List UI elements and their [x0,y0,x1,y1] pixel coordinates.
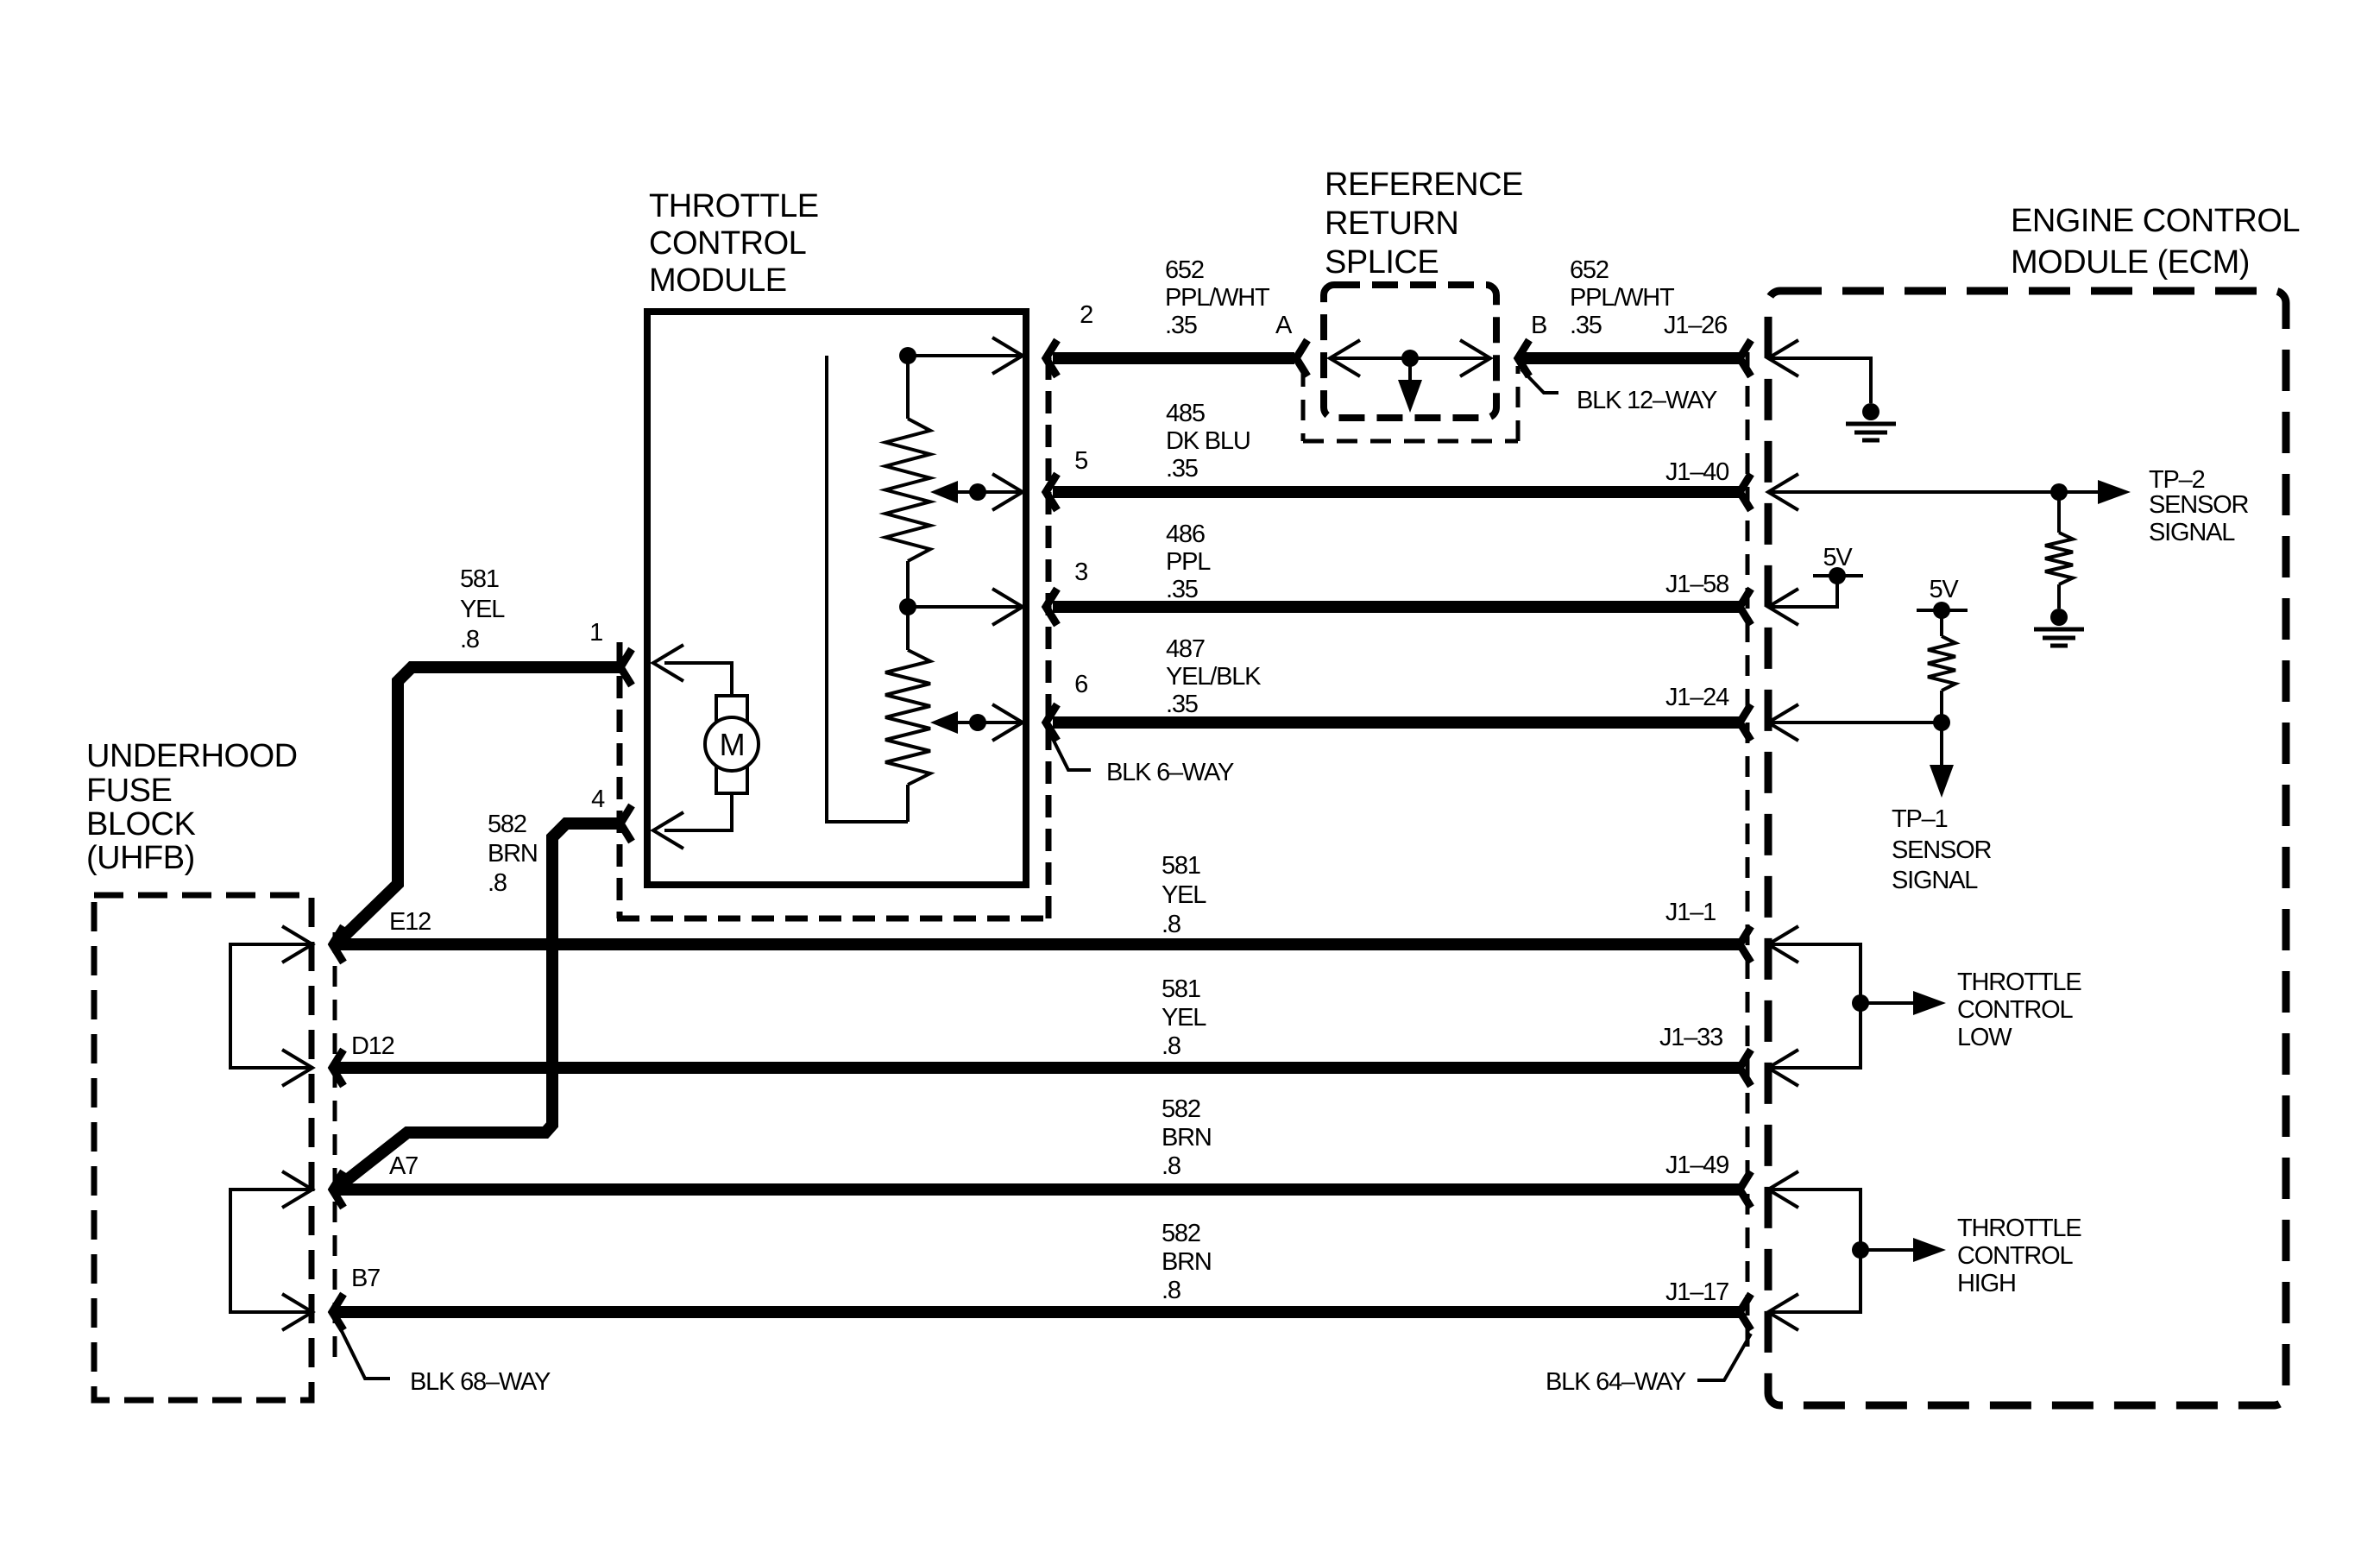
label wire 652 PPL/WHT .35 (left) [1165,256,1270,339]
junction dot TP-1 [1933,714,1950,731]
pin 2 connector chevron [1046,340,1057,376]
label: UNDERHOOD FUSE BLOCK (UHFB) title [86,738,298,876]
svg-text:J1–58: J1–58 [1665,571,1728,598]
svg-text:LOW: LOW [1957,1024,2012,1051]
svg-text:E12: E12 [389,908,431,936]
pin 6 label [1074,671,1087,698]
svg-text:.35: .35 [1166,576,1198,603]
resistor TP-1 pullup [1928,610,1955,723]
label wire 582 BRN .8 (pin 4) [488,811,538,897]
svg-text:.8: .8 [1162,1152,1181,1180]
label THROTTLE CONTROL LOW [1957,969,2081,1051]
splice arrow right [1460,340,1490,376]
junction dot wiper 2 [969,714,986,731]
svg-text:.8: .8 [1162,1277,1181,1304]
svg-text:BRN: BRN [1162,1248,1212,1276]
wire bracket E12-D12 inside UHFB [230,944,311,1068]
arrow into A7 [282,1171,312,1208]
wire bracket A7-B7 inside UHFB [230,1190,311,1312]
pin 1 connector chevron [620,649,632,685]
svg-text:HIGH: HIGH [1957,1270,2016,1297]
svg-text:BLK 68–WAY: BLK 68–WAY [410,1368,551,1396]
svg-text:.8: .8 [1162,1032,1181,1060]
label D12 [351,1032,394,1060]
underhood fuse block UHFB dashed box [94,895,312,1400]
junction dot pin2 tap [899,347,916,364]
svg-text:5V: 5V [1929,576,1959,603]
svg-text:(UHFB): (UHFB) [86,840,195,876]
motor lead to pin 1 [664,663,732,696]
svg-text:CONTROL: CONTROL [1957,996,2073,1024]
label wire 486 PPL .35 [1166,521,1211,603]
arrow TP-2 sensor signal [2098,480,2131,504]
label THROTTLE CONTROL HIGH [1957,1215,2081,1297]
svg-text:UNDERHOOD: UNDERHOOD [86,738,298,774]
svg-text:TP–2: TP–2 [2149,466,2205,494]
motor M symbol [705,696,759,793]
svg-text:.35: .35 [1166,691,1198,718]
pin 3 label [1074,558,1087,586]
arrow to pin 2 [992,338,1023,374]
label wire 581 YEL .8 (row D12) [1162,975,1206,1060]
bracket J1-49 J1-17 [1768,1190,1861,1312]
label J1-40 [1665,458,1728,486]
resistor lower (TP sensor 1) [885,607,930,822]
junction dot pin3 tap [899,598,916,615]
svg-text:582: 582 [1162,1095,1200,1123]
5V source dot 2 [1917,602,1968,619]
label wire 581 YEL .8 (row E12) [1162,852,1206,938]
arrow TP-1 sensor signal down [1930,723,1954,798]
label wire 581 YEL .8 (pin 1) [460,565,505,653]
svg-text:ENGINE CONTROL: ENGINE CONTROL [2011,203,2300,239]
svg-text:582: 582 [1162,1220,1200,1247]
label BLK 12-WAY with leader [1521,369,1717,414]
arrow into E12 [282,926,312,962]
svg-text:J1–26: J1–26 [1664,312,1727,339]
svg-text:YEL: YEL [460,596,505,623]
svg-text:B7: B7 [351,1265,380,1292]
svg-text:BLOCK: BLOCK [86,806,195,842]
connector BLK 6-WAY dashed boundary [617,352,1048,918]
connector chevron E12 [332,926,343,962]
svg-text:SENSOR: SENSOR [1892,836,1992,864]
wire 582 BRN row A7 to ECM J1-49 [337,1183,1739,1196]
svg-text:581: 581 [1162,852,1200,880]
svg-text:.35: .35 [1166,455,1198,483]
connector chevron J1-40 [1740,474,1751,510]
connector chevron J1-17 [1740,1294,1751,1330]
arrow into ECM J1-17 [1768,1294,1798,1330]
wire 581 YEL row E12 to ECM J1-1 [337,938,1739,950]
svg-text:J1–33: J1–33 [1659,1024,1722,1051]
svg-text:YEL/BLK: YEL/BLK [1166,663,1262,691]
svg-text:M: M [720,727,745,762]
svg-text:A7: A7 [389,1152,418,1180]
svg-text:B: B [1531,312,1546,339]
arrow into ECM J1-49 [1768,1171,1798,1208]
svg-text:581: 581 [1162,975,1200,1003]
resistor upper (TP sensor 2) [885,356,930,607]
svg-text:652: 652 [1570,256,1609,284]
ground symbol at J1-26 [1846,403,1896,440]
svg-text:487: 487 [1166,635,1205,663]
label wire 652 PPL/WHT .35 (right) [1570,256,1675,339]
label TP-1 SENSOR SIGNAL [1892,805,1992,894]
arrow motor lead pin 4 [653,812,683,849]
wire 581 YEL from UHFB E12 to TCM pin 1 [336,667,620,944]
arrow to pin 5 [992,474,1023,510]
wire 652 PPL/WHT segment pin2 to splice A [1053,352,1294,364]
pin 4 label [591,786,605,813]
arrow into ECM J1-1 [1768,926,1798,962]
svg-text:DK BLU: DK BLU [1166,427,1250,455]
label wire 582 BRN .8 (row A7) [1162,1095,1212,1180]
label wire 582 BRN .8 (row B7) [1162,1220,1212,1304]
arrow to pin 6 [992,704,1023,741]
svg-text:PPL/WHT: PPL/WHT [1570,284,1675,312]
svg-text:2: 2 [1080,301,1092,329]
arrow into ECM J1-33 [1768,1050,1798,1086]
splice arrow left [1330,340,1360,376]
label J1-1 [1665,899,1716,926]
pot tap to pin 3 [908,605,1023,609]
arrow throttle control low [1861,991,1946,1015]
svg-text:THROTTLE: THROTTLE [649,188,819,224]
splice down arrow [1398,358,1422,413]
junction dot throttle control high [1852,1241,1869,1259]
connector chevron splice A side [1296,340,1307,376]
svg-text:SIGNAL: SIGNAL [1892,867,1978,894]
connector chevron D12 [332,1050,343,1086]
wiper 1 arrow [930,481,1023,503]
svg-text:485: 485 [1166,400,1205,427]
label wire 485 DK BLU .35 [1166,400,1250,483]
splice internal wire [1330,357,1490,360]
svg-text:D12: D12 [351,1032,394,1060]
wire 652 PPL/WHT segment splice B to ECM J1-26 [1522,352,1739,364]
label A [1275,312,1293,339]
pin 3 connector chevron [1046,589,1057,625]
arrow motor lead pin 1 [653,645,683,681]
svg-text:.8: .8 [460,626,479,653]
svg-text:.35: .35 [1570,312,1602,339]
connector BLK 68-WAY dashed line [333,932,337,1364]
pin 6 connector chevron [1046,704,1057,741]
connector chevron J1-49 [1740,1171,1751,1208]
svg-text:PPL/WHT: PPL/WHT [1165,284,1270,312]
svg-text:BLK 6–WAY: BLK 6–WAY [1106,759,1234,786]
wire J1-24 to junction [1768,721,1942,724]
label wire 487 YEL/BLK .35 [1166,635,1262,718]
pin 1 label [589,619,602,647]
wire J1-26 to ground [1768,358,1871,403]
svg-text:FUSE: FUSE [86,773,172,809]
svg-text:SPLICE: SPLICE [1325,244,1439,281]
wire 485 DK BLU pin5 to ECM J1-40 [1053,486,1739,498]
svg-text:J1–1: J1–1 [1665,899,1716,926]
svg-text:486: 486 [1166,521,1205,548]
junction dot TP-2 [2050,483,2068,501]
svg-text:1: 1 [589,619,602,647]
svg-text:4: 4 [591,786,605,813]
svg-text:J1–17: J1–17 [1665,1278,1728,1306]
svg-text:CONTROL: CONTROL [649,225,806,262]
svg-text:J1–24: J1–24 [1665,684,1729,711]
arrow into B7 [282,1294,312,1330]
label BLK 6-WAY with leader [1049,732,1234,786]
svg-text:CONTROL: CONTROL [1957,1242,2073,1270]
5V source dot 1 [1813,567,1863,584]
svg-text:BLK 12–WAY: BLK 12–WAY [1577,387,1717,414]
connector chevron J1-24 [1740,704,1751,741]
label 5V source 1 [1823,544,1853,571]
svg-text:582: 582 [488,811,526,838]
svg-text:PPL: PPL [1166,548,1211,576]
arrow into D12 [282,1050,312,1086]
connector chevron J1-26 [1740,340,1751,376]
pin 5 label [1074,447,1087,475]
svg-text:652: 652 [1165,256,1204,284]
connector chevron J1-33 [1740,1050,1751,1086]
label: REFERENCE RETURN SPLICE title [1325,167,1523,281]
label BLK 64-WAY with leader [1546,1334,1751,1396]
svg-text:A: A [1275,312,1293,339]
label B7 [351,1265,380,1292]
svg-text:5: 5 [1074,447,1087,475]
wiper 2 arrow [930,711,1023,734]
reference return splice inner dashed box [1324,285,1496,418]
throttle control module solid box [647,312,1026,885]
connector chevron splice B side [1518,340,1529,376]
svg-text:.8: .8 [1162,911,1181,938]
wire 582 BRN from UHFB A7 to TCM pin 4 [335,824,620,1190]
wire 486 PPL pin3 to ECM J1-58 [1053,601,1739,613]
wire 581 YEL row D12 to ECM J1-33 [337,1062,1739,1074]
arrow into ECM J1-58 [1768,589,1798,625]
label J1-49 [1665,1152,1728,1179]
label A7 [389,1152,418,1180]
wire 487 YEL/BLK pin6 to ECM J1-24 [1053,716,1739,729]
svg-text:REFERENCE: REFERENCE [1325,167,1523,203]
svg-text:YEL: YEL [1162,1004,1206,1032]
pin 5 connector chevron [1046,474,1057,510]
arrow into ECM J1-40 [1768,474,1798,510]
label 5V source 2 [1929,576,1959,603]
label: THROTTLE CONTROL MODULE title [649,188,819,299]
ground symbol TP-2 [2034,609,2084,646]
svg-text:BLK 64–WAY: BLK 64–WAY [1546,1368,1686,1396]
label BLK 68-WAY with leader [337,1321,551,1396]
connector BLK 64-WAY dashed line [1746,352,1750,1347]
svg-text:SENSOR: SENSOR [2149,491,2249,519]
connector chevron A7 [332,1171,343,1208]
junction dot throttle control low [1852,994,1869,1012]
resistor TP-2 pulldown [2045,492,2073,609]
svg-text:YEL: YEL [1162,881,1206,909]
label J1-58 [1665,571,1728,598]
pot tap to pin 2 [908,354,1023,357]
svg-text:581: 581 [460,565,499,593]
svg-text:.8: .8 [488,869,507,897]
svg-text:.35: .35 [1165,312,1197,339]
arrow throttle control high [1861,1238,1946,1262]
label TP-2 SENSOR SIGNAL [2149,466,2249,546]
svg-text:TP–1: TP–1 [1892,805,1948,833]
pin 4 connector chevron [620,805,632,842]
label J1-26 [1664,312,1727,339]
motor lead to pin 4 [664,793,732,830]
label: ENGINE CONTROL MODULE (ECM) title [2011,203,2300,281]
connector chevron J1-1 [1740,926,1751,962]
label J1-33 [1659,1024,1722,1051]
arrow into ECM J1-26 [1768,340,1798,376]
wire TP-2 sensor signal [1768,490,2100,494]
svg-text:THROTTLE: THROTTLE [1957,1215,2081,1242]
pin 2 label [1080,301,1092,329]
bracket J1-1 J1-33 [1768,944,1861,1068]
wire 582 BRN row B7 to ECM J1-17 [337,1306,1739,1318]
label E12 [389,908,431,936]
svg-text:BRN: BRN [488,840,538,868]
arrow into ECM J1-24 [1768,704,1798,741]
splice junction dot [1401,350,1419,367]
wire 5V to J1-58 [1768,576,1837,607]
svg-text:6: 6 [1074,671,1087,698]
engine control module ECM dashed box [1768,291,2286,1405]
svg-text:MODULE (ECM): MODULE (ECM) [2011,244,2250,281]
label J1-24 [1665,684,1729,711]
connector chevron B7 [332,1294,343,1330]
svg-text:J1–40: J1–40 [1665,458,1728,486]
svg-text:SIGNAL: SIGNAL [2149,519,2235,546]
svg-text:MODULE: MODULE [649,262,787,299]
label J1-17 [1665,1278,1728,1306]
arrow to pin 3 [992,589,1023,625]
connector BLK 12-WAY dashed boundary [1303,366,1518,441]
svg-text:J1–49: J1–49 [1665,1152,1728,1179]
svg-text:3: 3 [1074,558,1087,586]
svg-text:THROTTLE: THROTTLE [1957,969,2081,996]
svg-text:RETURN: RETURN [1325,205,1458,242]
label B [1531,312,1546,339]
junction dot wiper 1 [969,483,986,501]
svg-text:BRN: BRN [1162,1124,1212,1152]
connector chevron J1-58 [1740,589,1751,625]
pot loop wire [827,356,908,822]
